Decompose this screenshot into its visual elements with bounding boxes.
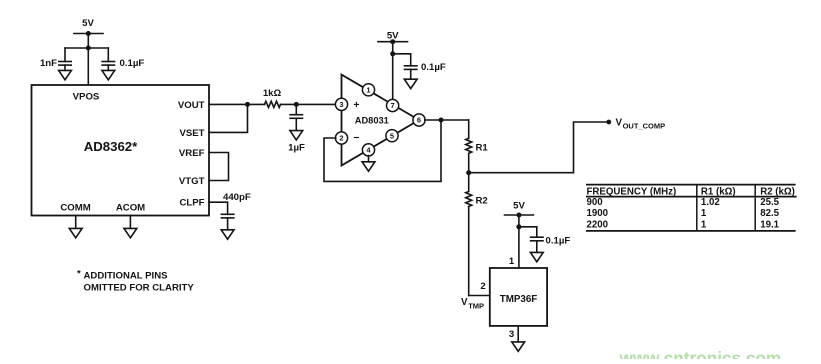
- pin 4: [362, 144, 374, 156]
- svg-text:5V: 5V: [82, 18, 94, 29]
- op-amp U AD8031: [342, 75, 420, 166]
- wire ACOM stub: [129, 216, 131, 229]
- node output/feedback junction: [439, 118, 444, 123]
- IC U AD8362: [32, 85, 210, 216]
- ground (1uF): [290, 131, 303, 140]
- svg-text:ACOM: ACOM: [116, 203, 145, 214]
- svg-text:3: 3: [509, 329, 514, 340]
- svg-text:R1: R1: [476, 143, 489, 154]
- wire pin3 stub: [517, 326, 519, 342]
- svg-text:CLPF: CLPF: [179, 198, 204, 209]
- pin 5: [386, 130, 398, 142]
- 5V supply label (TMP36F): [505, 200, 534, 217]
- svg-text:19.1: 19.1: [760, 219, 779, 230]
- pin 3: [335, 98, 347, 110]
- svg-text:1: 1: [366, 86, 370, 95]
- svg-text:5V: 5V: [513, 200, 525, 211]
- 5V supply label (op-amp): [378, 31, 408, 45]
- svg-text:5: 5: [390, 131, 394, 140]
- wire to VOUT_COMP terminal: [469, 122, 607, 173]
- capacitor C 0.1uF (op-amp): [405, 62, 446, 79]
- svg-text:VTGT: VTGT: [179, 176, 205, 187]
- svg-text:2200: 2200: [587, 219, 609, 230]
- svg-text:*: *: [77, 269, 81, 280]
- svg-text:OMITTED FOR CLARITY: OMITTED FOR CLARITY: [84, 282, 195, 293]
- svg-text:2: 2: [480, 281, 485, 292]
- svg-text:1nF: 1nF: [40, 58, 57, 69]
- svg-text:1: 1: [701, 219, 707, 230]
- wire op-amp output: [425, 119, 469, 121]
- svg-text:0.1µF: 0.1µF: [120, 58, 145, 69]
- 5V supply label (top-left): [74, 18, 103, 36]
- wire resistor to op-amp +input: [281, 103, 336, 105]
- node label VTMP: [461, 297, 484, 310]
- capacitor C 1nF: [40, 48, 71, 70]
- svg-text:3: 3: [339, 100, 343, 109]
- capacitor C 0.1uF (TMP36F): [531, 235, 571, 252]
- ground (COMM): [69, 228, 82, 237]
- svg-text:1: 1: [701, 208, 707, 219]
- svg-text:AD8031: AD8031: [355, 116, 389, 126]
- svg-text:R1 (kΩ): R1 (kΩ): [701, 186, 736, 197]
- wire 5V to pin1: [518, 215, 520, 268]
- svg-text:6: 6: [417, 116, 421, 125]
- svg-text:VSET: VSET: [179, 128, 204, 139]
- svg-text:1µF: 1µF: [288, 143, 305, 154]
- svg-text:1.02: 1.02: [701, 197, 720, 208]
- capacitor C 440pF: [221, 192, 250, 230]
- node VOUT_COMP terminal: [606, 120, 611, 125]
- node R1/R2 junction: [466, 170, 471, 175]
- svg-text:VPOS: VPOS: [73, 92, 100, 103]
- wire branch to 0.1uF (TMP): [519, 227, 537, 237]
- wire VREF to VTGT loop: [209, 153, 229, 181]
- svg-text:82.5: 82.5: [760, 208, 779, 219]
- svg-text:1: 1: [509, 256, 515, 267]
- resistor R2: [466, 173, 488, 296]
- pin 1: [362, 84, 374, 96]
- svg-text:TMP: TMP: [468, 301, 484, 310]
- svg-text:VREF: VREF: [179, 148, 205, 159]
- pin 2: [335, 132, 347, 144]
- wire 5V to pin7: [392, 42, 394, 100]
- note: additional pins omitted: [77, 269, 194, 294]
- wire VOUT to resistor: [209, 103, 265, 105]
- wire COMM stub: [75, 216, 77, 229]
- svg-text:FREQUENCY (MHz): FREQUENCY (MHz): [587, 186, 677, 197]
- svg-text:440pF: 440pF: [223, 192, 251, 203]
- ground (pin 3): [512, 342, 525, 351]
- wire rail to VPOS: [87, 48, 89, 85]
- svg-text:900: 900: [587, 197, 603, 208]
- wire CLPF stub: [209, 202, 228, 214]
- ground (0.1uF left): [102, 70, 115, 79]
- resistor R1: [466, 120, 489, 173]
- svg-text:0.1µF: 0.1µF: [421, 62, 446, 73]
- node label VOUT_COMP: [616, 118, 666, 131]
- wire branch to 0.1uF: [393, 54, 411, 66]
- pin 7: [387, 99, 399, 111]
- ground (pin 4): [362, 162, 375, 171]
- svg-text:www.cntronics.com: www.cntronics.com: [619, 348, 782, 359]
- node: supply rail junction: [86, 46, 91, 51]
- node 1uF junction: [294, 102, 299, 107]
- wire VSET feedback loop: [209, 104, 248, 132]
- svg-text:25.5: 25.5: [760, 197, 779, 208]
- svg-text:TMP36F: TMP36F: [500, 294, 538, 305]
- capacitor C 1uF: [288, 104, 305, 153]
- ground (0.1uF TMP): [530, 252, 543, 261]
- svg-text:V: V: [616, 118, 623, 129]
- wire pin4 ground stub: [368, 156, 370, 162]
- ground (ACOM): [124, 228, 137, 237]
- node 0.1uF branch (TMP): [516, 224, 521, 229]
- resistor 1kOhm: [263, 88, 282, 108]
- wire feedback pin2 loop: [324, 120, 441, 181]
- svg-text:+: +: [353, 99, 359, 111]
- svg-text:V: V: [461, 297, 468, 308]
- table: R1/R2 vs frequency: [586, 185, 797, 231]
- svg-text:−: −: [353, 132, 359, 144]
- wire supply rail: [65, 47, 108, 49]
- svg-text:R2 (kΩ): R2 (kΩ): [760, 186, 795, 197]
- node 0.1uF branch junction: [390, 51, 395, 56]
- svg-text:2: 2: [339, 134, 343, 143]
- wire 5V to rail: [87, 34, 89, 49]
- ground (0.1uF op-amp): [404, 79, 417, 88]
- wire R2 to TMP36F pin2: [469, 295, 490, 297]
- node VOUT/VSET junction: [245, 102, 250, 107]
- svg-text:COMM: COMM: [60, 203, 90, 214]
- svg-text:OUT_COMP: OUT_COMP: [623, 121, 666, 130]
- svg-text:1900: 1900: [587, 208, 609, 219]
- ground (1nF): [59, 70, 72, 79]
- svg-text:R2: R2: [476, 196, 488, 207]
- ground (440pF): [221, 230, 234, 239]
- pin 6: [413, 114, 425, 126]
- svg-text:VOUT: VOUT: [178, 100, 205, 111]
- svg-text:ADDITIONAL PINS: ADDITIONAL PINS: [84, 271, 169, 282]
- svg-text:7: 7: [391, 101, 395, 110]
- svg-text:0.1µF: 0.1µF: [546, 235, 571, 246]
- svg-text:1kΩ: 1kΩ: [263, 88, 282, 99]
- IC U TMP36F: [490, 268, 547, 326]
- capacitor C 0.1uF (left): [102, 48, 144, 70]
- svg-text:AD8362*: AD8362*: [84, 139, 138, 154]
